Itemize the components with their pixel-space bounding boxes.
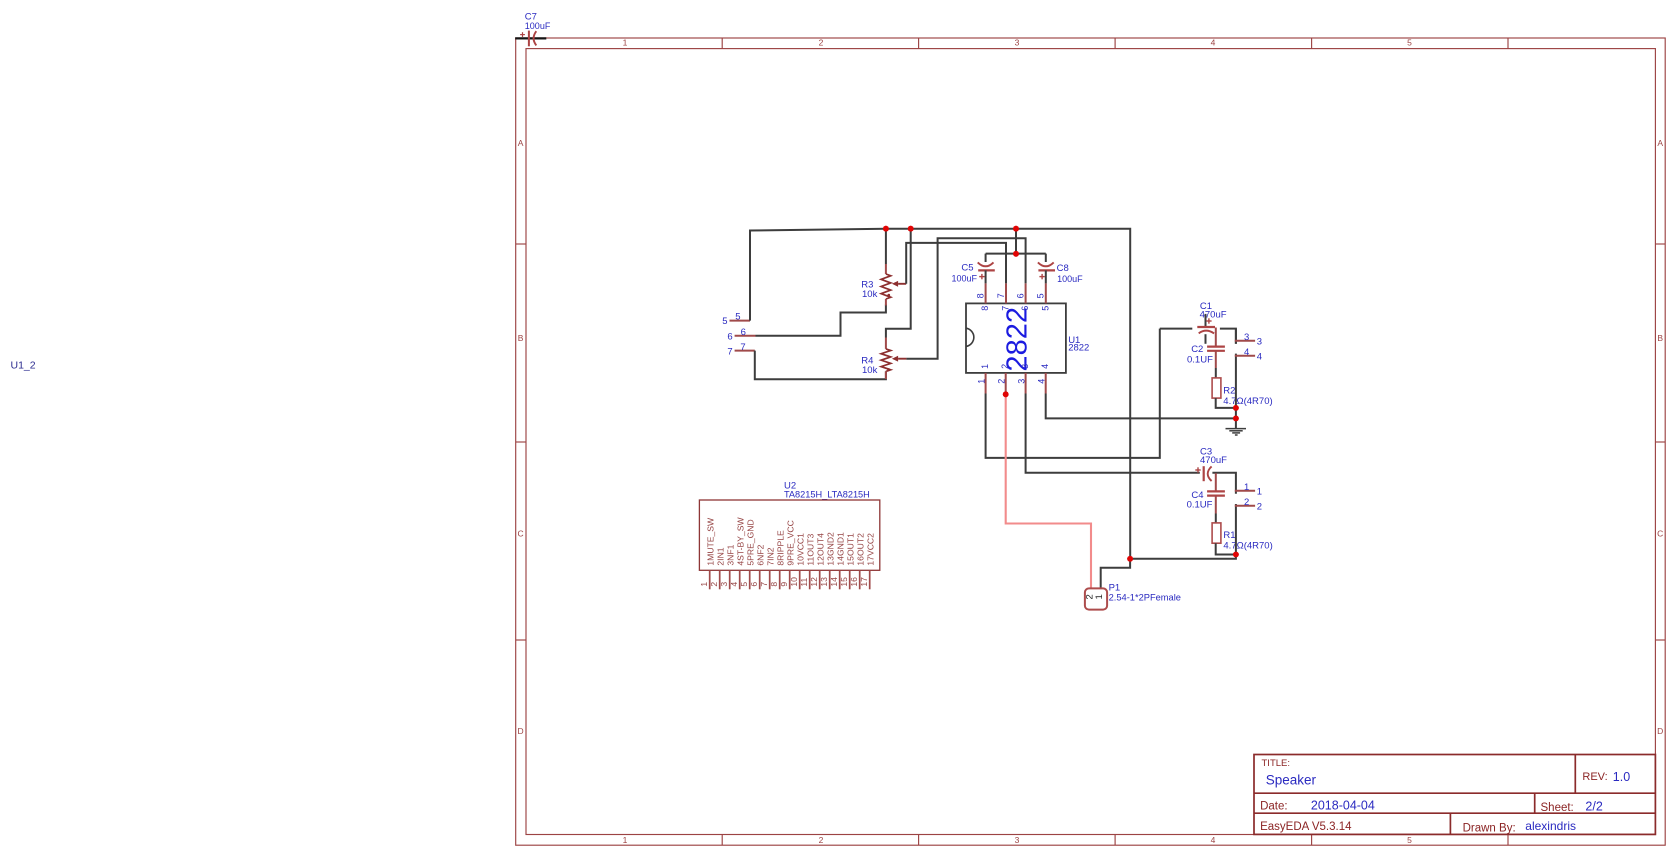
wire pin4 column to ground bbox=[1235, 354, 1237, 429]
capacitor C7 100uF (polarized, horizontal) bbox=[528, 31, 530, 47]
svg-text:15: 15 bbox=[839, 577, 849, 587]
capacitor C4 0.1UF bbox=[1215, 473, 1217, 491]
svg-text:C: C bbox=[1657, 528, 1663, 538]
pin 3 of U1_2 (stub) bbox=[1235, 340, 1255, 342]
resistor R3 10k (potentiometer) bbox=[885, 264, 887, 274]
svg-text:7: 7 bbox=[727, 346, 732, 357]
svg-text:REV:: REV: bbox=[1582, 771, 1607, 783]
pin 1 of U1_2 (stub) bbox=[1235, 490, 1255, 492]
U2 pin 17 (VCC2) bbox=[869, 570, 871, 589]
svg-text:2822: 2822 bbox=[1002, 307, 1034, 372]
svg-text:B: B bbox=[1657, 333, 1663, 343]
junction pin4 net / ground column bbox=[1233, 416, 1239, 422]
svg-text:7: 7 bbox=[740, 342, 745, 353]
junction U1 pin2 bbox=[1003, 391, 1009, 397]
svg-text:4ST-BY_SW: 4ST-BY_SW bbox=[735, 516, 745, 565]
wire pin6 to R3 bottom bbox=[756, 305, 886, 336]
svg-text:5: 5 bbox=[1040, 306, 1050, 311]
svg-text:5: 5 bbox=[1036, 293, 1046, 298]
svg-text:1: 1 bbox=[977, 379, 987, 384]
svg-text:4: 4 bbox=[1040, 364, 1050, 369]
svg-text:100uF: 100uF bbox=[1057, 274, 1083, 284]
svg-text:1: 1 bbox=[1244, 482, 1249, 493]
svg-text:D: D bbox=[1657, 726, 1663, 736]
svg-text:2: 2 bbox=[997, 379, 1007, 384]
wire R3 wiper to U1 pin7 bbox=[906, 243, 1006, 284]
svg-text:6: 6 bbox=[1020, 306, 1030, 311]
junction R1 / pins column bbox=[1233, 552, 1239, 558]
svg-text:5: 5 bbox=[735, 312, 740, 323]
U2 pin 6 (NF2) bbox=[759, 570, 761, 589]
svg-text:11OUT3: 11OUT3 bbox=[805, 534, 815, 566]
svg-text:R1: R1 bbox=[1223, 530, 1235, 541]
svg-text:1: 1 bbox=[1257, 487, 1262, 498]
svg-text:2822: 2822 bbox=[1068, 342, 1089, 353]
svg-text:3: 3 bbox=[1257, 337, 1262, 348]
svg-text:3: 3 bbox=[1017, 379, 1027, 384]
svg-text:5PRE_GND: 5PRE_GND bbox=[745, 519, 755, 565]
U1 pin 7 (top stub) bbox=[1005, 283, 1007, 303]
svg-text:EasyEDA V5.3.14: EasyEDA V5.3.14 bbox=[1260, 821, 1352, 833]
U2 pin 13 (GND2) bbox=[829, 570, 831, 589]
junction top rail / R4 branch bbox=[908, 226, 914, 232]
svg-text:3: 3 bbox=[1015, 37, 1020, 47]
svg-text:10k: 10k bbox=[862, 365, 878, 376]
svg-text:6: 6 bbox=[727, 331, 732, 342]
wire R4 wiper to U1 pin6 bbox=[906, 238, 1025, 359]
pin 2 of U1_2 (stub) bbox=[1235, 505, 1255, 507]
svg-text:470uF: 470uF bbox=[1200, 455, 1227, 466]
pin 6 of U1_2 (stub) bbox=[735, 335, 756, 337]
svg-text:2: 2 bbox=[1244, 497, 1249, 508]
svg-text:5: 5 bbox=[722, 316, 727, 327]
svg-text:4: 4 bbox=[1211, 835, 1216, 845]
svg-text:2: 2 bbox=[819, 37, 824, 47]
resistor R1 4.7ohm bbox=[1212, 523, 1221, 543]
wire pin7 to R4 bottom bbox=[755, 351, 886, 380]
svg-text:TITLE:: TITLE: bbox=[1262, 758, 1291, 769]
svg-text:1: 1 bbox=[699, 582, 709, 587]
U2 pin 16 (OUT2) bbox=[859, 570, 861, 589]
svg-text:6: 6 bbox=[749, 582, 759, 587]
svg-text:10VCC1: 10VCC1 bbox=[795, 533, 805, 566]
wire top rail to R4 top bbox=[886, 229, 911, 338]
svg-text:15OUT1: 15OUT1 bbox=[845, 533, 855, 566]
svg-text:10k: 10k bbox=[862, 289, 878, 300]
svg-text:U1_2: U1_2 bbox=[11, 359, 36, 371]
U2 pin 5 (PRE_GND) bbox=[749, 570, 751, 589]
wire U1 pin3 to C3 bbox=[1026, 394, 1200, 473]
wire U1 pin1 to C1 net bbox=[986, 329, 1160, 458]
capacitor C5 100uF (polarized) bbox=[985, 254, 987, 262]
svg-text:3: 3 bbox=[719, 582, 729, 587]
U1 pin 5 (top stub) bbox=[1045, 283, 1047, 303]
U2 pin 1 (MUTE_SW) bbox=[709, 570, 711, 589]
connector P1 2.54-1*2PFemale bbox=[1085, 588, 1107, 609]
pin 7 of U1_2 (stub) bbox=[735, 350, 755, 352]
U1 pin 3 (bottom stub) bbox=[1025, 373, 1027, 394]
svg-text:1: 1 bbox=[980, 364, 990, 369]
svg-text:B: B bbox=[518, 333, 524, 343]
svg-text:C: C bbox=[518, 528, 524, 538]
svg-text:2IN1: 2IN1 bbox=[715, 547, 725, 565]
U1 pin 6 (top stub) bbox=[1025, 283, 1027, 303]
svg-text:R2: R2 bbox=[1223, 385, 1235, 396]
svg-text:2: 2 bbox=[709, 582, 719, 587]
svg-text:17VCC2: 17VCC2 bbox=[865, 533, 875, 566]
capacitor C8 100uF (polarized) bbox=[1045, 254, 1047, 262]
svg-text:11: 11 bbox=[799, 577, 809, 586]
U2 pin 8 (RIPPLE) bbox=[779, 570, 781, 589]
U2 pin 12 (OUT4) bbox=[819, 570, 821, 589]
svg-text:4: 4 bbox=[1211, 37, 1216, 47]
svg-text:5: 5 bbox=[739, 582, 749, 587]
U2 pin 3 (NF1) bbox=[729, 570, 731, 589]
svg-text:Speaker: Speaker bbox=[1266, 773, 1317, 788]
svg-text:5: 5 bbox=[1407, 37, 1412, 47]
svg-text:470uF: 470uF bbox=[1200, 309, 1227, 320]
svg-text:4: 4 bbox=[729, 582, 739, 587]
wire C5C8 net to top rail bbox=[1015, 229, 1017, 254]
junction top rail / R3 bbox=[883, 226, 889, 232]
svg-text:alexindris: alexindris bbox=[1525, 819, 1576, 833]
pin 4 of U1_2 (stub) bbox=[1235, 355, 1255, 357]
svg-text:4.7Ω(4R70): 4.7Ω(4R70) bbox=[1223, 396, 1272, 407]
svg-text:2018-04-04: 2018-04-04 bbox=[1311, 799, 1375, 813]
svg-text:0.1UF: 0.1UF bbox=[1187, 354, 1213, 365]
svg-text:C8: C8 bbox=[1057, 263, 1069, 274]
U2 pin 2 (IN1) bbox=[719, 570, 721, 589]
svg-text:2: 2 bbox=[1257, 502, 1262, 513]
svg-text:13: 13 bbox=[819, 577, 829, 587]
svg-text:3: 3 bbox=[1015, 835, 1020, 845]
svg-text:A: A bbox=[518, 138, 524, 148]
wire pin5 to top rail bbox=[750, 229, 886, 321]
svg-text:5: 5 bbox=[1407, 835, 1412, 845]
svg-text:9PRE_VCC: 9PRE_VCC bbox=[785, 520, 795, 565]
junction C5C8 net bbox=[1013, 251, 1019, 257]
svg-text:12: 12 bbox=[809, 577, 819, 587]
svg-text:TA8215H_LTA8215H: TA8215H_LTA8215H bbox=[784, 489, 870, 499]
svg-text:8: 8 bbox=[976, 293, 986, 298]
svg-text:9: 9 bbox=[779, 582, 789, 587]
U2 pin 11 (OUT3) bbox=[809, 570, 811, 589]
wire C3 right to pins 1/2 column bbox=[1212, 473, 1236, 494]
capacitor C1 470uF (polarized) bbox=[1205, 314, 1207, 326]
capacitor C3 470uF (polarized, horizontal) bbox=[1203, 466, 1205, 481]
svg-text:8: 8 bbox=[980, 306, 990, 311]
svg-text:8: 8 bbox=[769, 582, 779, 587]
wire C1 left bbox=[1160, 328, 1193, 330]
svg-text:2.54-1*2PFemale: 2.54-1*2PFemale bbox=[1109, 592, 1181, 602]
U2 pin 9 (PRE_VCC) bbox=[789, 570, 791, 589]
resistor R4 10k (potentiometer) bbox=[885, 338, 887, 349]
svg-text:13GND2: 13GND2 bbox=[825, 532, 835, 566]
svg-text:1.0: 1.0 bbox=[1613, 770, 1630, 784]
sheet border frame bbox=[516, 38, 1666, 845]
U1 pin 8 (top stub) bbox=[985, 283, 987, 303]
junction R2/ground column bbox=[1233, 405, 1239, 411]
svg-text:17: 17 bbox=[859, 577, 869, 587]
wire R1 bottom bbox=[1216, 543, 1236, 554]
svg-text:7: 7 bbox=[759, 582, 769, 587]
wire U1 pin2 to P1 pin2 (highlighted net) bbox=[1006, 394, 1091, 589]
svg-text:3: 3 bbox=[1020, 364, 1030, 369]
svg-text:10: 10 bbox=[789, 577, 799, 587]
svg-text:1: 1 bbox=[1094, 594, 1105, 599]
wire C1 right to pins 3/4 column bbox=[1220, 329, 1236, 344]
U1 pin 2 (bottom stub) bbox=[1005, 373, 1007, 394]
title block bbox=[1254, 755, 1655, 835]
svg-text:Drawn By:: Drawn By: bbox=[1463, 822, 1516, 834]
U2 pin 4 (ST-BY_SW) bbox=[739, 570, 741, 589]
svg-text:7: 7 bbox=[996, 293, 1006, 298]
svg-text:Date:: Date: bbox=[1260, 801, 1288, 813]
wire R2 bottom to ground net bbox=[1216, 398, 1236, 408]
U2 pin 15 (OUT1) bbox=[849, 570, 851, 589]
svg-text:14GND1: 14GND1 bbox=[835, 532, 845, 566]
svg-text:16: 16 bbox=[849, 577, 859, 587]
svg-text:4: 4 bbox=[1244, 347, 1249, 358]
ground symbol bbox=[1226, 428, 1247, 430]
svg-text:1: 1 bbox=[623, 37, 628, 47]
U2 pin 7 (IN2) bbox=[769, 570, 771, 589]
svg-text:7IN2: 7IN2 bbox=[765, 547, 775, 565]
svg-text:6: 6 bbox=[741, 327, 746, 338]
svg-text:C5: C5 bbox=[961, 263, 973, 274]
svg-text:2/2: 2/2 bbox=[1585, 800, 1602, 814]
svg-text:16OUT2: 16OUT2 bbox=[855, 533, 865, 566]
svg-text:A: A bbox=[1657, 138, 1663, 148]
junction dots (overlay) bbox=[883, 226, 889, 232]
wire pins 3-4 column upper bbox=[1235, 329, 1237, 344]
svg-text:6: 6 bbox=[1016, 293, 1026, 298]
svg-text:4: 4 bbox=[1037, 379, 1047, 384]
junction bottom net bbox=[1127, 556, 1133, 562]
wire (C7 net, black, crossing frame top) bbox=[515, 37, 546, 39]
resistor R2 4.7ohm bbox=[1212, 378, 1221, 398]
wire top rail to R3 top bbox=[885, 229, 887, 264]
svg-text:3: 3 bbox=[1244, 332, 1249, 343]
svg-text:100uF: 100uF bbox=[525, 21, 551, 31]
svg-text:D: D bbox=[518, 726, 524, 736]
svg-text:2: 2 bbox=[819, 835, 824, 845]
svg-text:4.7Ω(4R70): 4.7Ω(4R70) bbox=[1223, 540, 1272, 551]
svg-text:3NF1: 3NF1 bbox=[725, 544, 735, 565]
junction top rail / C5-C8 net bbox=[1013, 226, 1019, 232]
svg-text:0.1UF: 0.1UF bbox=[1187, 500, 1213, 511]
svg-text:6NF2: 6NF2 bbox=[755, 544, 765, 565]
svg-text:12OUT4: 12OUT4 bbox=[815, 533, 825, 566]
svg-text:2: 2 bbox=[1000, 364, 1010, 369]
U2 pin 10 (VCC1) bbox=[799, 570, 801, 589]
svg-text:1MUTE_SW: 1MUTE_SW bbox=[705, 517, 715, 566]
U1 pin 1 (bottom stub) bbox=[985, 373, 987, 394]
wire P1 pin1 to bottom net bbox=[1101, 559, 1130, 589]
U1 pin 4 (bottom stub) bbox=[1045, 373, 1047, 394]
svg-text:7: 7 bbox=[1001, 306, 1011, 311]
svg-text:100uF: 100uF bbox=[952, 273, 978, 283]
wire C5-C8 top net bbox=[986, 253, 1046, 255]
U2 pin 14 (GND1) bbox=[839, 570, 841, 589]
svg-text:8RIPPLE: 8RIPPLE bbox=[775, 530, 785, 566]
svg-text:14: 14 bbox=[829, 577, 839, 587]
svg-text:4: 4 bbox=[1257, 352, 1262, 363]
capacitor C2 0.1UF bbox=[1215, 328, 1217, 347]
wire U1 pin4 to ground net bbox=[1046, 394, 1236, 419]
pin 5 of U1_2 (stub) bbox=[730, 320, 751, 322]
wire top rail to right vertical bbox=[886, 229, 1130, 559]
svg-text:1: 1 bbox=[623, 835, 628, 845]
svg-text:Sheet:: Sheet: bbox=[1541, 802, 1574, 814]
op-amp U1 2822 (IC body) bbox=[966, 303, 1066, 373]
wire pins 1-2 column to bottom net bbox=[1130, 504, 1236, 559]
